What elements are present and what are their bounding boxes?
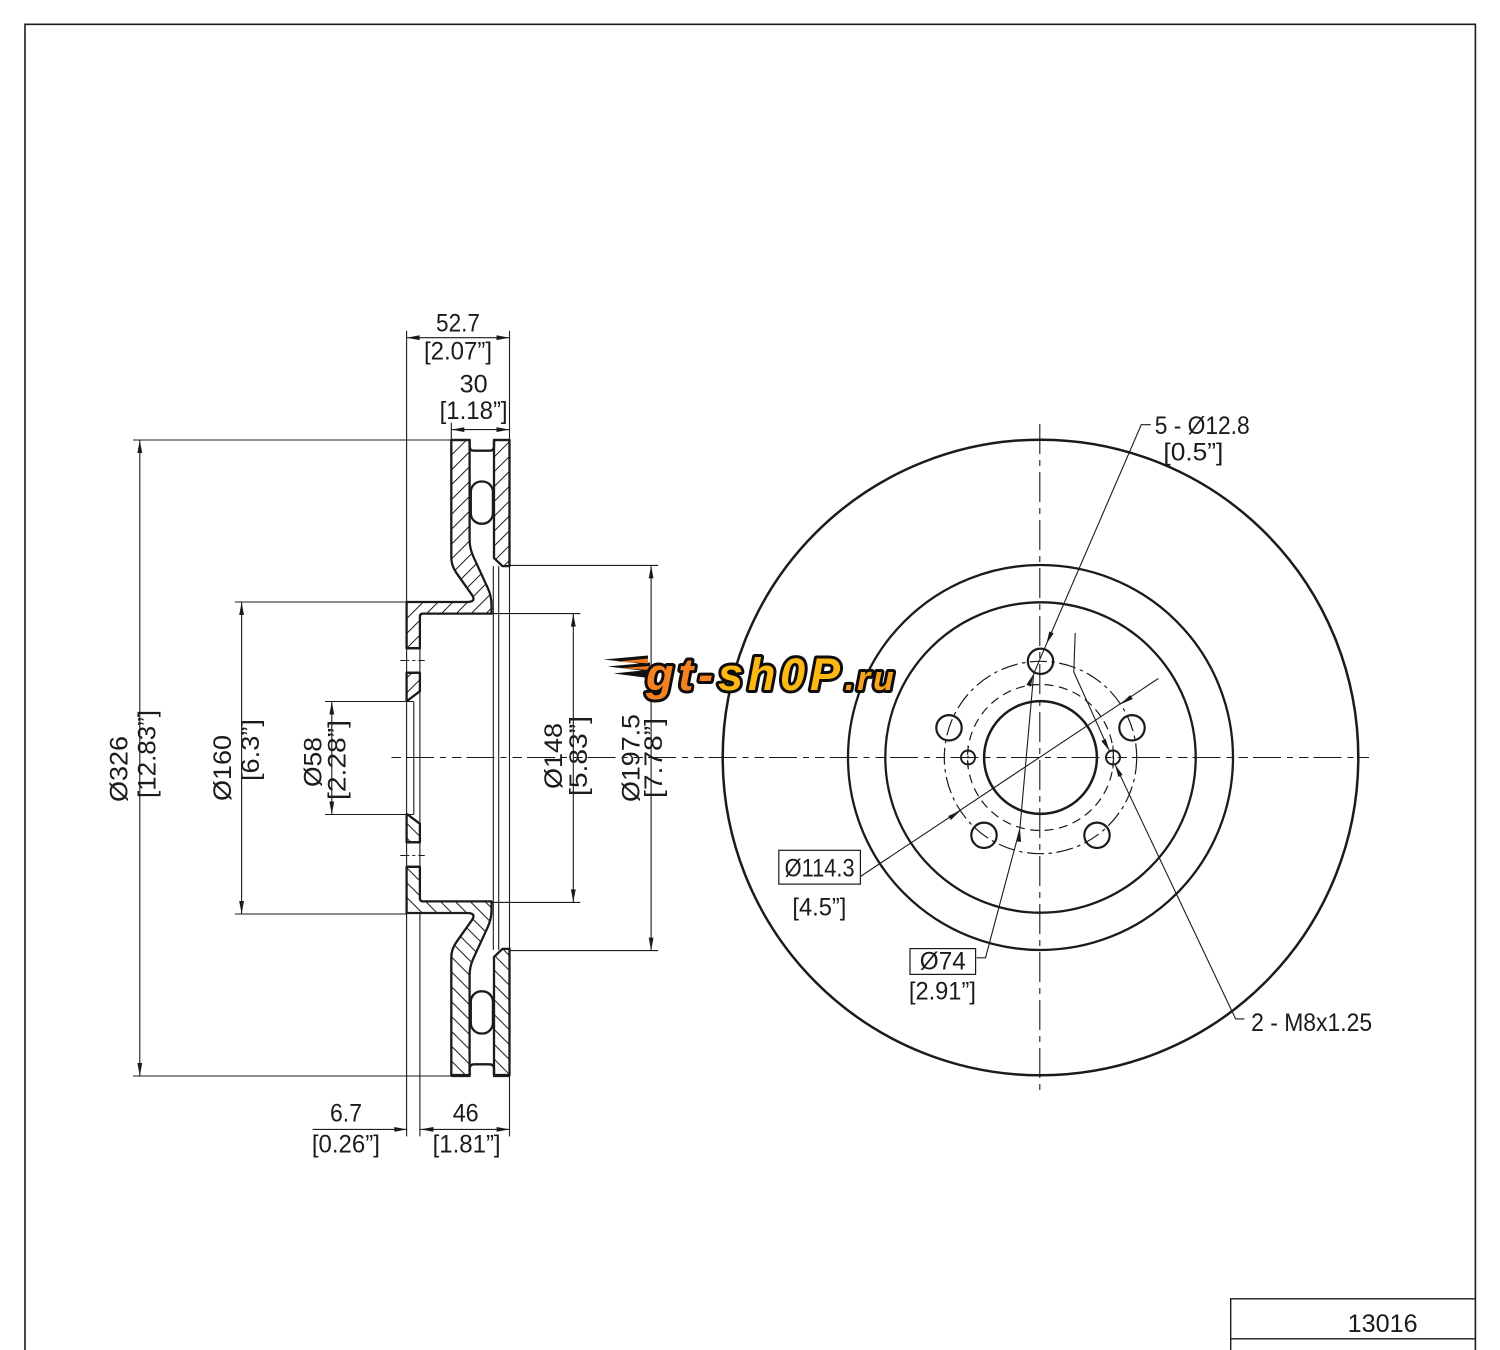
- gt-shop.ru watermark logo: [604, 649, 895, 700]
- stud hole edge lines (bottom half): [407, 842, 420, 867]
- extension line 46 left: [414, 614, 420, 1137]
- svg-text:Ø326: Ø326: [106, 736, 134, 802]
- extension lines Ø197.5: [503, 565, 658, 950]
- vent vane pill (top half): [471, 482, 493, 524]
- dimension Ø160: [241, 602, 243, 914]
- extension lines 52.7 / 6.7 left: [406, 331, 408, 1137]
- svg-text:13016: 13016: [1348, 1310, 1418, 1338]
- svg-text:[2.91”]: [2.91”]: [909, 978, 976, 1006]
- svg-text:[1.81”]: [1.81”]: [433, 1131, 501, 1159]
- hub register dashed circle Ø74: [968, 685, 1114, 831]
- svg-text:[2.28”]: [2.28”]: [323, 720, 351, 800]
- arrows on Ø74 construction line: [1026, 674, 1033, 687]
- extension lines Ø160: [235, 602, 407, 914]
- five wheel bolt holes Ø12.8: [1028, 649, 1053, 674]
- svg-text:[4.5”]: [4.5”]: [792, 894, 846, 922]
- svg-text:Ø74: Ø74: [920, 948, 966, 976]
- section flange inner piece (top half): [407, 673, 420, 701]
- dimension 6.7: [313, 1128, 408, 1130]
- vent notch at OD (bottom half): [470, 1064, 494, 1075]
- svg-text:Ø160: Ø160: [209, 735, 237, 801]
- svg-text:30: 30: [460, 371, 488, 399]
- dimension Ø197.5: [650, 565, 652, 950]
- extension lines Ø148: [491, 614, 580, 903]
- svg-text:[7.78”]: [7.78”]: [640, 718, 668, 798]
- svg-text:[5.83”]: [5.83”]: [565, 716, 593, 796]
- dimension 46: [420, 1128, 509, 1130]
- bolt circle (dash-dot): [944, 661, 1136, 853]
- leader 5-Ø12.8: [977, 425, 1151, 958]
- section flange inner piece (bottom half): [407, 814, 420, 842]
- front view vertical centerline: [1039, 424, 1041, 1092]
- section outboard plate (top half): [494, 440, 510, 566]
- short construction line to M8 hole: [1074, 633, 1110, 751]
- extension lines Ø326: [133, 440, 452, 1076]
- title block: [1231, 1299, 1476, 1350]
- svg-text:[2.07”]: [2.07”]: [424, 338, 492, 366]
- svg-text:2 - M8x1.25: 2 - M8x1.25: [1251, 1009, 1372, 1037]
- front view bore circle Ø58: [984, 701, 1097, 814]
- label box Ø114.3: [779, 850, 861, 884]
- projected edges of outboard plate: [493, 566, 509, 950]
- svg-text:52.7: 52.7: [436, 310, 480, 338]
- svg-text:46: 46: [453, 1100, 479, 1128]
- dimension Ø148: [572, 614, 574, 903]
- svg-text:[0.26”]: [0.26”]: [312, 1131, 380, 1159]
- svg-text:Ø114.3: Ø114.3: [785, 855, 855, 883]
- dimension Ø58: [331, 702, 333, 815]
- svg-text:[6.3”]: [6.3”]: [237, 719, 265, 781]
- extension lines 30 / 52.7 right: [451, 331, 509, 1137]
- section inboard plate + hat (bottom half): [407, 867, 492, 1075]
- svg-text:5 - Ø12.8: 5 - Ø12.8: [1155, 412, 1250, 440]
- section inboard plate + hat (top half): [407, 440, 492, 648]
- dimension 30: [451, 429, 509, 431]
- front view outer circle Ø326: [723, 440, 1359, 1076]
- dimension line Ø114.3: [860, 679, 1158, 877]
- dimension Ø326: [139, 440, 141, 1076]
- svg-text:[12.83”]: [12.83”]: [134, 710, 162, 798]
- stud hole edge lines (top half): [407, 648, 420, 673]
- svg-text:[0.5”]: [0.5”]: [1163, 439, 1223, 467]
- vent vane pill (bottom half): [471, 991, 493, 1033]
- svg-text:[1.18”]: [1.18”]: [440, 397, 508, 425]
- two M8 service holes: [1106, 751, 1120, 765]
- vent notch at OD (top half): [470, 440, 494, 451]
- front view circle Ø160: [885, 602, 1195, 912]
- friction ring OD edges: [451, 440, 509, 1076]
- svg-text:6.7: 6.7: [330, 1100, 362, 1128]
- stud hole centerlines in section: [400, 661, 425, 856]
- leader 2-M8x1.25: [1115, 764, 1245, 1019]
- dimension 52.7: [407, 337, 510, 339]
- label box Ø74: [910, 949, 976, 975]
- extension lines Ø58: [325, 702, 414, 815]
- section outboard plate (bottom half): [494, 949, 510, 1075]
- front view circle Ø197.5: [848, 565, 1233, 950]
- main horizontal centerline (axis): [392, 757, 1375, 759]
